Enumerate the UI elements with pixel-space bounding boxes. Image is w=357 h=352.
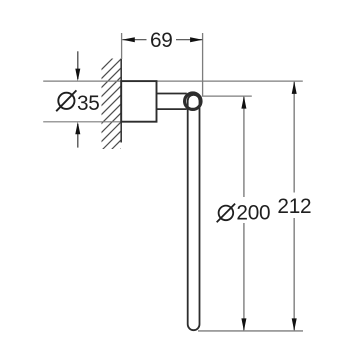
dim 212 dimension line: [293, 81, 295, 331]
extension line top-left of dim Ø35: [43, 80, 121, 82]
dim Ø35 label diameter symbol: [56, 90, 76, 111]
dim Ø200 dimension line: [243, 96, 245, 331]
svg-text:200: 200: [236, 202, 270, 225]
extension line bottom shared by dims Ø200 and 212: [198, 330, 303, 332]
wall line: [120, 59, 122, 143]
dim 69 dimension line: [122, 39, 202, 41]
towel ring (side view stadium outline): [188, 95, 200, 330]
dim Ø200 label diameter symbol: [217, 204, 235, 223]
wall hatching: [96, 45, 126, 174]
dim 69 label: [147, 29, 177, 52]
dim Ø200 label: [215, 197, 273, 225]
dim 69 left arrow: [122, 37, 135, 42]
extension line bottom-left of dim Ø35: [43, 121, 121, 123]
extension line top of dim Ø200: [202, 95, 252, 97]
dim Ø35 top arrow leader: [77, 51, 79, 79]
dim Ø35 bottom arrow leader: [77, 124, 79, 148]
svg-text:35: 35: [77, 92, 100, 115]
dim 212 top arrow: [292, 81, 297, 94]
dim Ø200 bottom arrow: [241, 318, 246, 331]
extension line right of dim 69: [202, 33, 204, 96]
mount cylinder body: [121, 81, 156, 122]
extension line top of dim 212 (cylinder top extended right): [157, 80, 303, 82]
svg-text:212: 212: [277, 195, 311, 218]
svg-text:69: 69: [150, 29, 173, 52]
dim 69 right arrow: [190, 37, 203, 42]
dim 212 label: [277, 193, 312, 219]
pivot collar circle: [185, 93, 201, 109]
neck tube connecting cylinder to ring: [157, 94, 187, 110]
dim 212 bottom arrow: [292, 318, 297, 331]
extension line left of dim 69 (wall line extended up): [121, 33, 123, 59]
dim Ø200 top arrow: [241, 96, 246, 109]
